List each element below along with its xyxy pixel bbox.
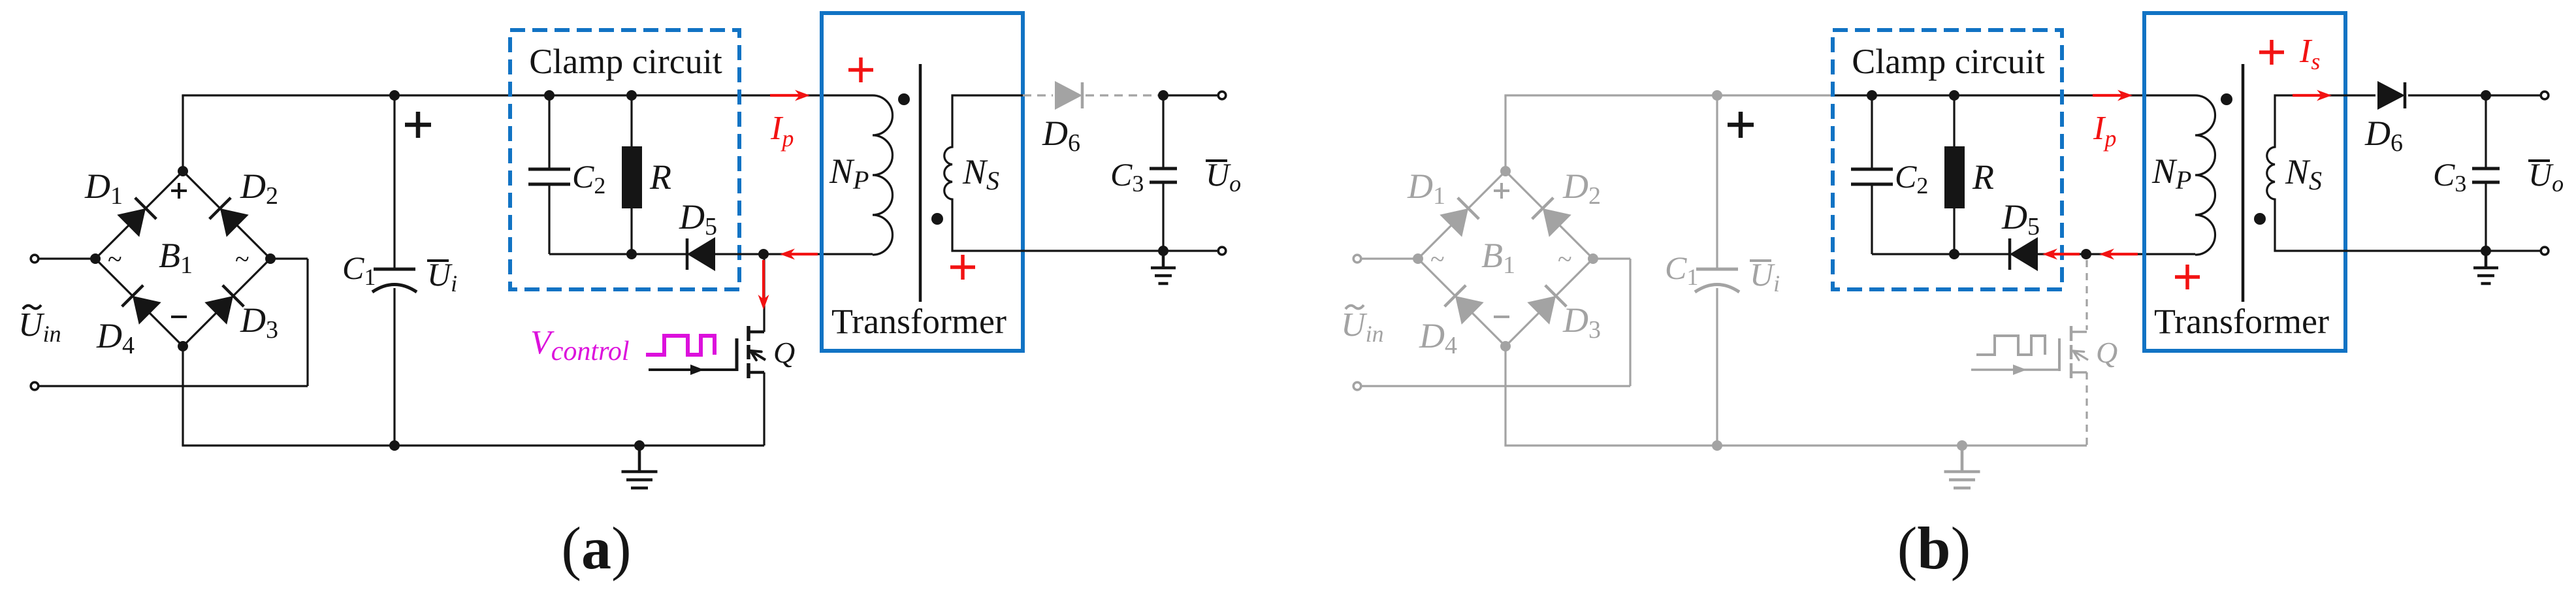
primary dot mark [898,93,910,105]
wire: output top [2486,94,2540,96]
svg-text:Transformer: Transformer [831,302,1006,341]
svg-text:D3: D3 [1562,300,1601,344]
wire: bridge top to dc rail [1504,95,1506,171]
current arrow Is [2293,94,2321,97]
transformer box [822,13,1023,351]
node: bridge right [1588,253,1598,264]
diode D5 [687,237,715,271]
current arrow clamp return 1 [2053,253,2080,255]
wire: clamp bottom [549,253,873,255]
node: C1 bottom junction [389,440,400,451]
node: bridge bottom [1500,341,1511,351]
svg-text:B1: B1 [159,236,193,279]
polarity plus primary top [848,68,873,72]
node: bridge left [90,253,101,264]
wire: bridge bottom to ground rail [182,346,184,446]
svg-text:Ui: Ui [1750,256,1780,297]
diode D2 [220,208,249,237]
node: C1 top junction [1712,90,1722,101]
clamp circuit dashed box [510,30,739,289]
current arrow clamp return 2 [2110,253,2138,255]
wire: dc top rail [1504,94,1833,96]
node: output top junction [1158,90,1168,101]
current arrow Ip [770,94,799,97]
node: ground junction [1957,440,1967,451]
svg-text:Vcontrol: Vcontrol [530,324,630,366]
wire: output top [1163,94,1217,96]
wire: switch drain [763,254,765,332]
node: output terminal upper [2541,91,2549,99]
svg-text:C2: C2 [1895,158,1928,199]
ground symbol on bottom rail [638,446,641,472]
svg-text:NP: NP [2151,152,2191,195]
svg-text:D5: D5 [2001,197,2040,240]
svg-text:NS: NS [2285,152,2322,195]
svg-text:Ui: Ui [427,256,457,297]
svg-text:C1: C1 [1665,250,1698,290]
svg-text:D1: D1 [84,167,123,210]
svg-text:Uin: Uin [18,306,61,347]
bridge polarity marks [1494,189,1509,192]
svg-text:Transformer: Transformer [2154,302,2329,341]
polarity plus of dc bus [1728,123,1754,127]
svg-text:Clamp circuit: Clamp circuit [529,42,722,81]
bridge polarity marks [171,189,187,192]
svg-text:(a): (a) [561,515,631,581]
wire: dc top rail [182,94,510,96]
node: R top junction [1949,90,1959,101]
transistor Q mosfet [2071,331,2087,333]
svg-text:Q: Q [2096,336,2117,369]
node: output terminal lower [1218,247,1226,255]
node: input terminal lower [1362,385,1630,387]
diode D1 [117,208,146,237]
resistor R [630,95,632,146]
capacitor C2 [548,95,550,169]
svg-text:Uin: Uin [1341,306,1384,347]
transistor Q mosfet [749,331,764,334]
diode D3 [204,296,233,325]
svg-text:Q: Q [773,336,795,369]
diode D4 [133,296,161,325]
transformer box [2144,13,2345,351]
diode D6 [2345,94,2375,96]
secondary dot mark [2254,213,2266,225]
node: C1 bottom junction [1712,440,1722,451]
diode D2 [1543,208,1571,237]
node: C1 top junction [389,90,400,101]
svg-text:~: ~ [108,244,122,274]
secondary winding NS [944,95,1023,251]
node: output bottom junction [1158,246,1168,256]
svg-text:D5: D5 [679,197,717,240]
svg-text:Is: Is [2299,33,2320,74]
svg-text:~: ~ [1558,244,1572,274]
wire: switch source [2085,372,2087,446]
node: bridge bottom [178,341,188,351]
node: bridge top [178,166,188,176]
svg-text:C1: C1 [342,250,376,290]
svg-text:~: ~ [1430,244,1445,274]
node: R bottom junction [1949,249,1959,259]
polarity plus primary bottom [2175,275,2200,279]
node: R top junction [626,90,637,101]
node: C2 top junction [1867,90,1877,101]
current arrow Ip [2093,94,2122,97]
polarity plus secondary bottom [950,265,975,269]
wire: switch drain [2085,260,2087,330]
transformer core [2242,64,2245,302]
node: output top junction [2481,90,2491,101]
svg-text:NP: NP [829,152,869,195]
node: output terminal lower [2541,247,2549,255]
svg-text:~: ~ [235,244,250,274]
diode D4 [1455,296,1484,325]
node: input terminal lower [39,385,308,387]
svg-text:R: R [649,157,671,197]
node: clamp output junction [2081,249,2091,259]
ground symbol on bottom rail [1961,446,1964,472]
svg-text:Ip: Ip [2093,110,2116,152]
resistor R [1953,95,1955,146]
svg-text:D6: D6 [2364,114,2403,157]
svg-text:D4: D4 [1419,316,1457,359]
svg-text:Uo: Uo [2528,156,2564,197]
current arrow into switch [762,260,765,299]
node: bridge top [1500,166,1511,176]
secondary winding NS [2267,95,2345,251]
node: clamp output junction [758,249,769,259]
node: C2 top junction [544,90,555,101]
wire: bridge bottom to ground rail [1504,346,1506,446]
wire: switch source [763,372,765,446]
svg-text:Ip: Ip [770,110,794,152]
node: R bottom junction [626,249,637,259]
secondary dot mark [931,213,943,225]
wire: ground bottom rail [1504,444,2087,446]
transformer core [919,64,922,302]
current arrow clamp return [790,253,818,255]
capacitor C1 [1716,95,1718,268]
capacitor C2 [1871,95,1873,169]
svg-text:C2: C2 [572,158,605,199]
node: output bottom junction [2481,246,2491,256]
clamp circuit dashed box [1833,30,2062,289]
wire: gate drive lead [649,368,737,371]
node: ground junction [634,440,645,451]
gate drive square wave [646,336,715,355]
svg-text:Uo: Uo [1206,156,1241,197]
bridge rectifier B1 diamond [1418,171,1505,259]
svg-text:D6: D6 [1042,114,1080,157]
capacitor C1 [393,95,395,268]
capacitor C3 [1162,95,1164,169]
node: output terminal upper [1218,91,1226,99]
node: input terminal upper [1362,257,1418,259]
wire: clamp bottom [1872,253,2195,255]
wire: bridge top to dc rail [182,95,184,171]
svg-text:Clamp circuit: Clamp circuit [1852,42,2044,81]
output ground symbol [1162,252,1165,268]
polarity plus of dc bus [405,123,431,127]
diode D3 [1527,296,1556,325]
svg-text:D3: D3 [240,300,278,344]
svg-text:B1: B1 [1481,236,1515,279]
diode D5 [2010,237,2038,271]
svg-text:C3: C3 [2433,156,2466,197]
capacitor C3 [2485,95,2487,169]
wire: secondary bottom to output [2345,250,2540,252]
output ground symbol [2485,252,2488,268]
polarity plus secondary top [2259,50,2284,54]
node: bridge left [1413,253,1423,264]
gate drive square wave [1976,336,2045,355]
primary dot mark [2221,93,2232,105]
bridge rectifier B1 diamond [95,171,183,259]
svg-text:(b): (b) [1897,515,1971,581]
primary winding NP [2195,95,2215,255]
svg-text:D2: D2 [1562,167,1601,210]
node: bridge right [265,253,276,264]
wire: gate drive lead [1971,368,2059,370]
wire: ground bottom rail [182,444,764,446]
wire: secondary bottom to output [1023,250,1217,252]
node: input terminal upper [39,257,95,259]
primary winding NP [873,95,892,255]
svg-text:D2: D2 [240,167,278,210]
diode D6 [1023,94,1053,96]
svg-text:D1: D1 [1407,167,1445,210]
svg-text:R: R [1972,157,1994,197]
svg-text:NS: NS [962,152,999,195]
diode D1 [1440,208,1468,237]
svg-text:C3: C3 [1110,156,1144,197]
svg-text:D4: D4 [96,316,135,359]
